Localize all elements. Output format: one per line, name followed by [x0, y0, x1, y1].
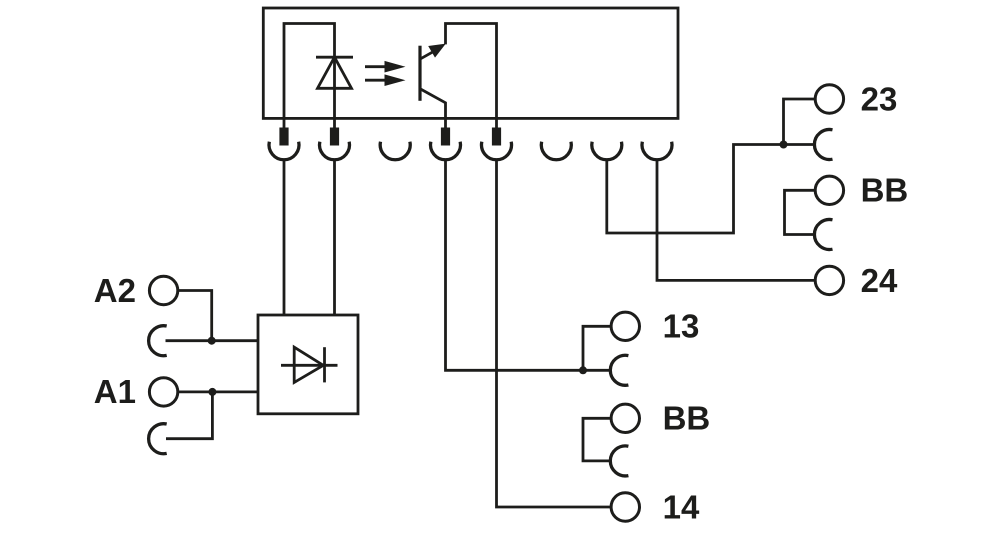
wire (LED loop: left leg, top rail, right leg)	[284, 24, 335, 132]
pin 1	[279, 128, 288, 146]
svg-text:13: 13	[663, 308, 700, 345]
svg-text:A2: A2	[94, 272, 136, 309]
svg-text:24: 24	[861, 262, 898, 299]
pin 4	[492, 128, 501, 146]
svg-text:14: 14	[663, 488, 700, 525]
wire (branch up to terminal circle 13)	[583, 326, 611, 370]
socket contact 1	[269, 142, 299, 160]
wire (pin3 column down then right to contact 13 pair)	[446, 160, 610, 370]
socket contact 3	[380, 142, 410, 160]
wire (contact 8 down then right to terminal 24)	[657, 160, 815, 280]
relay module outline U1	[263, 8, 678, 118]
LED D1 (emitter diode, cathode bar top, triangle below)	[316, 57, 353, 88]
spring contact under A2	[149, 326, 167, 356]
spring contact under A1	[149, 424, 167, 454]
wire (A1 circle to rectifier box)	[178, 390, 258, 393]
terminal circle 23	[815, 85, 843, 113]
light arrow (lower, pointing right)	[365, 74, 406, 86]
svg-text:23: 23	[861, 80, 898, 117]
terminal circle BB (right)	[815, 176, 843, 204]
pin 2	[330, 128, 339, 146]
phototransistor Q1 (base bar, emitter with arrow to top-right, collector to bottom-right)	[420, 44, 446, 131]
node junction 23	[780, 141, 788, 149]
terminal circle 14	[611, 493, 639, 521]
socket contact 5	[481, 142, 511, 160]
wire (branch up to terminal circle 23)	[784, 99, 816, 145]
pin 3	[441, 128, 450, 146]
spring contact under BB (middle)	[610, 446, 628, 476]
socket contact 8	[642, 142, 672, 160]
spring contact under BB (right)	[814, 219, 832, 249]
wire (A2 contact to rectifier box)	[166, 339, 259, 342]
spring contact under 13	[610, 355, 628, 385]
light arrow (upper, pointing right)	[365, 61, 406, 73]
wire (A1 node down then left to lower contact)	[166, 392, 212, 439]
node junction 13	[579, 366, 587, 374]
node junction A1	[208, 388, 216, 396]
terminal circle A2	[149, 276, 177, 304]
wire (pin2 column down to rectifier box)	[333, 160, 336, 315]
wire (pin4 column down then right to terminal 14)	[497, 160, 612, 507]
terminal circle BB (middle)	[611, 404, 639, 432]
wire (transistor top lead to internal rail and right leg)	[446, 24, 497, 132]
wire (A2 circle right then down to node)	[178, 291, 212, 341]
svg-text:BB: BB	[663, 400, 711, 437]
terminal circle A1	[149, 378, 177, 406]
socket contact 6	[541, 142, 571, 160]
socket contact 7	[592, 142, 622, 160]
terminal circle 13	[611, 312, 639, 340]
terminal circle 24	[815, 266, 843, 294]
wire (BB right bracket)	[785, 190, 816, 234]
rectifier block outline	[258, 315, 358, 414]
diode D2 (inside rectifier block, pointing right)	[281, 347, 338, 382]
socket contact 4	[431, 142, 461, 160]
wire (contact 7 down, right, up to 23 pair)	[607, 145, 814, 234]
wire (pin1 column down to rectifier box)	[283, 160, 286, 315]
wire (BB middle bracket)	[583, 418, 611, 461]
svg-text:BB: BB	[861, 172, 909, 209]
socket contact 2	[320, 142, 350, 160]
spring contact under 23	[814, 130, 832, 160]
node junction A2	[208, 337, 216, 345]
svg-text:A1: A1	[94, 373, 136, 410]
